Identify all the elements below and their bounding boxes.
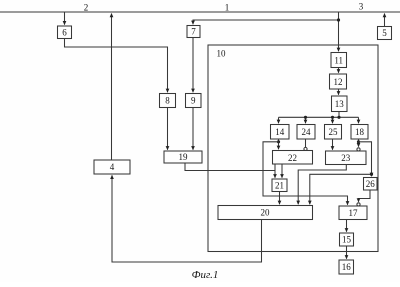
block 17 [339,206,367,220]
wire 18 output to block 26 [359,142,372,176]
wire drop to block 18 [358,117,360,123]
wire block 25 to block 23 [332,139,334,150]
block 20 [218,206,313,220]
block 4 [94,160,130,174]
wire block 8 to block 19 [167,108,169,150]
svg-text:23: 23 [341,153,351,163]
box 10 dashed container [208,45,378,252]
wire block 22 to junction above 21 [274,164,276,171]
block 19 [164,151,202,163]
svg-text:5: 5 [382,28,387,38]
svg-text:14: 14 [275,127,285,137]
wire block 12 to block 13 [338,89,340,95]
block 23 [326,151,367,165]
wire drop to block 24 [305,117,307,123]
wire block 21 to block 20 [279,192,281,205]
block 18 [351,125,368,140]
block 11 [331,53,347,68]
svg-text:26: 26 [366,179,376,189]
wire block 14 to block 22 [278,139,280,149]
svg-text:13: 13 [335,99,345,109]
svg-text:1: 1 [225,3,230,13]
block 8 [160,94,176,108]
svg-text:8: 8 [165,96,170,106]
block 14 [271,125,290,140]
block 16 [339,260,354,274]
block 7 [187,26,200,38]
block 21 [272,179,287,192]
node circle input on 22 [304,147,307,150]
node circle input on 17 [357,203,360,206]
svg-text:24: 24 [302,127,312,137]
svg-text:20: 20 [261,208,271,218]
svg-text:18: 18 [355,127,365,137]
svg-text:Фиг.1: Фиг.1 [192,269,219,281]
svg-text:9: 9 [191,96,196,106]
block 12 [330,74,347,89]
wire block 7 to block 9 [192,38,194,93]
wire drop to block 14 [278,117,280,123]
svg-text:22: 22 [288,153,297,163]
svg-text:6: 6 [62,27,67,37]
wire block 13 to distribution line [338,112,340,118]
wire 26 feed branch to block 20 [310,174,372,204]
node junction dot on 14 output [277,140,280,143]
wire block 17 to block 15 [346,220,348,232]
wire block 24 to block 22 inverting [305,139,307,147]
node junction bus-7-11 [337,18,340,21]
block 26 [364,178,378,191]
svg-text:2: 2 [84,3,89,13]
wire block 11 to block 12 [338,68,340,73]
wire 14 output loop to block 17 [263,142,348,205]
svg-text:19: 19 [179,152,189,162]
svg-text:17: 17 [349,208,359,218]
wire bus line 1-2-3 [0,11,400,13]
wire block 5 to bus [384,14,386,27]
svg-text:11: 11 [334,56,343,66]
block 22 [273,151,313,165]
block 25 [325,125,342,140]
svg-text:10: 10 [217,49,227,59]
block 24 [297,125,315,140]
svg-text:21: 21 [275,181,284,191]
node junction dot branch [370,173,373,176]
wire block 20 to block 4 [112,175,262,262]
wire block 23 to block 20 [298,165,346,205]
wire block 4 to bus [111,14,113,160]
wire block 22 to block 21 [281,164,283,178]
node junction dot 25 drop [331,116,334,119]
svg-text:3: 3 [359,2,364,12]
block 15 [340,233,354,246]
wire block 19 to block 21 [185,163,275,178]
node junction dot 13 feed [337,116,340,119]
svg-text:25: 25 [329,127,339,137]
block 6 [58,26,72,39]
wire drop to block 25 [332,117,334,123]
wire distribution line [279,116,359,118]
block 13 [332,96,348,112]
node junction dot on 18 output [357,140,360,143]
wire block 26 to block 17 inverting [359,190,371,202]
wire bus to block 6 [64,12,66,25]
wire bus junction to block 7 [193,12,339,24]
svg-text:7: 7 [191,27,196,37]
svg-text:12: 12 [334,77,343,87]
block 5 [378,27,392,40]
svg-text:15: 15 [342,235,352,245]
wire block 6 to block 8 [65,39,168,93]
node junction dot 24 drop [304,116,307,119]
node circle input on 23 [357,148,360,151]
svg-text:16: 16 [342,262,352,272]
wire block 18 to block 23 inverting [358,139,360,147]
wire block 15 to block 16 [346,246,348,259]
wire bus junction to block 11 [338,20,340,51]
wire block 9 to block 19 [192,108,194,150]
svg-text:4: 4 [110,162,115,172]
block 9 [186,94,202,108]
